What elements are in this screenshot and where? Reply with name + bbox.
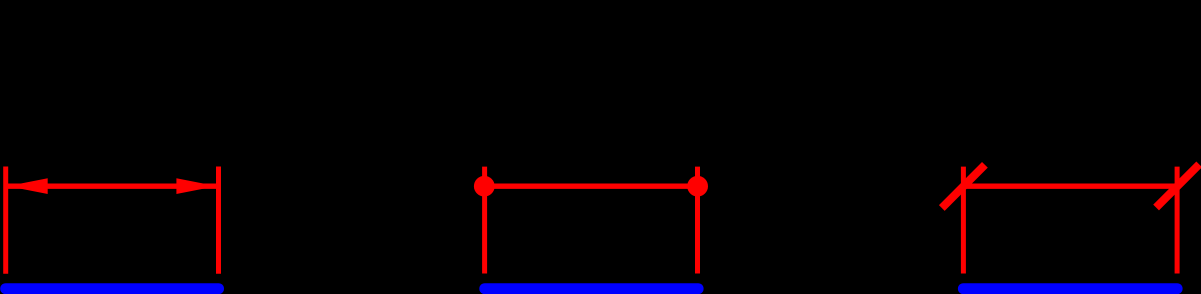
node dot B-right: [687, 176, 708, 197]
substrate bar C: [963, 283, 1177, 294]
mirror line C-left: [961, 167, 966, 274]
mirror line A-left: [3, 167, 8, 274]
slash mark C-right: [1156, 164, 1199, 207]
mirror line B-right: [695, 167, 700, 274]
arrow shaft A: [8, 183, 217, 188]
substrate bar B: [485, 283, 698, 294]
mirror line C-right: [1175, 167, 1180, 274]
arrowhead A-left: [8, 178, 48, 194]
substrate bar A: [6, 283, 219, 294]
arrowhead A-right: [176, 178, 216, 194]
slash mark C-left: [942, 165, 985, 208]
node dot B-left: [474, 176, 495, 197]
connecting line B: [485, 183, 698, 188]
connecting line C: [963, 183, 1177, 188]
mirror line A-right: [216, 167, 221, 274]
mirror line B-left: [482, 167, 487, 274]
